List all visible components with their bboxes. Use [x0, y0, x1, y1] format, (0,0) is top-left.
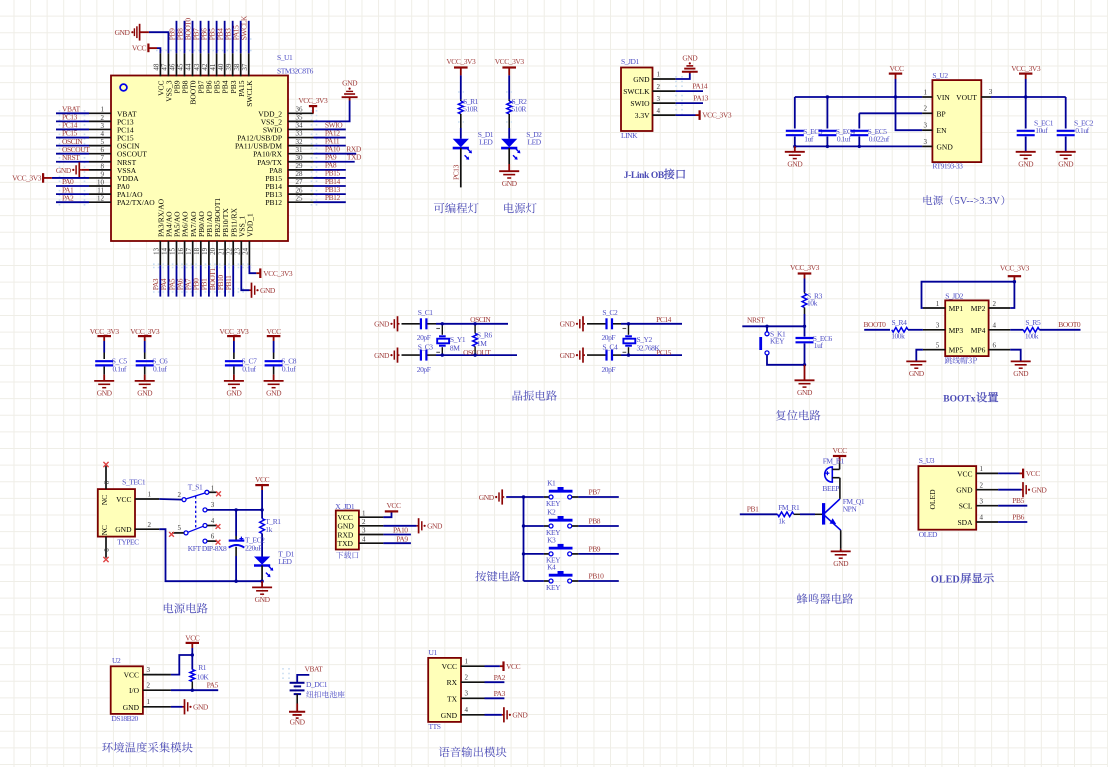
- svg-text:3: 3: [101, 122, 105, 130]
- wire net PB6: [998, 521, 1027, 523]
- svg-text:VCC_3V3: VCC_3V3: [1000, 263, 1030, 272]
- wire VCC to buzzer: [839, 461, 841, 469]
- svg-text:SWCLK: SWCLK: [240, 15, 249, 40]
- wire S_EC2 bottom: [1065, 137, 1067, 152]
- svg-text:VCC_3V3: VCC_3V3: [702, 111, 732, 120]
- wire U2 GND: [171, 706, 183, 708]
- svg-text:3: 3: [924, 138, 928, 146]
- wire X_JD1 pin2 to GND: [383, 525, 416, 527]
- wire net PA8: [314, 169, 346, 171]
- svg-text:44: 44: [185, 63, 193, 71]
- U1 pin 11 (PA1/AO): [89, 193, 111, 195]
- U1 pin 13 (PA3/RX/AO): [159, 241, 161, 265]
- svg-text:BP: BP: [937, 109, 946, 118]
- svg-text:0.022uf: 0.022uf: [869, 135, 890, 144]
- wire net PB4 (top): [224, 21, 226, 53]
- wire U1 pin 24 to VCC_3V3: [249, 265, 256, 273]
- wire net PB9 (top): [175, 21, 177, 53]
- svg-text:MP2: MP2: [971, 304, 986, 313]
- svg-text:EN: EN: [937, 126, 948, 135]
- wire U1 pin 47 to GND: [149, 32, 169, 53]
- power port VCC (TTS): [500, 665, 504, 667]
- wire FM_R1 to base: [794, 513, 800, 515]
- svg-text:26: 26: [296, 186, 304, 194]
- svg-text:PB10: PB10: [589, 571, 605, 580]
- connector S_JD1 body: [621, 68, 653, 132]
- wire OSCIN: [427, 323, 436, 325]
- svg-text:100k: 100k: [1025, 332, 1039, 341]
- key K2: [549, 524, 553, 528]
- svg-text:0.1uf: 0.1uf: [837, 135, 851, 144]
- svg-text:2: 2: [657, 83, 661, 91]
- U1 pin 21 (PB10/TX): [224, 241, 226, 265]
- ground below S_D2: [499, 170, 519, 172]
- U1 pin 10 (PA0): [89, 185, 111, 187]
- resistor S_R5 100k: [1023, 328, 1039, 333]
- svg-text:12: 12: [97, 195, 105, 203]
- capacitor S_EC3 1uf: [786, 130, 804, 132]
- svg-text:PA2/TX/AO: PA2/TX/AO: [117, 198, 155, 207]
- IC S_U2 body: [932, 80, 981, 162]
- svg-text:LINK: LINK: [621, 131, 638, 140]
- wire BP to S_EC5: [859, 112, 922, 114]
- wire net NRST: [56, 161, 89, 163]
- title 按键电路: [475, 571, 520, 582]
- svg-text:KEY: KEY: [546, 499, 561, 508]
- svg-text:STM32C8T6: STM32C8T6: [277, 67, 314, 76]
- svg-text:1: 1: [148, 491, 152, 499]
- wire net PA9 (X_JD1): [383, 542, 411, 544]
- wire K3 to PB9: [578, 553, 618, 555]
- wire key bus: [523, 497, 525, 581]
- U1 pin 15 (PA5/AO): [176, 241, 178, 265]
- wire net NRST (reset): [742, 325, 804, 327]
- wire PC15: [613, 354, 621, 356]
- junction S_EC4/GND rail: [826, 145, 829, 148]
- svg-text:5: 5: [101, 138, 105, 146]
- wire net PA12: [314, 137, 346, 139]
- resistor R1 10K: [190, 670, 195, 682]
- U1 pin 5 (OSCIN): [89, 145, 111, 147]
- U1 pin 23 (VSS_1): [240, 241, 242, 265]
- svg-text:3: 3: [657, 95, 661, 103]
- module U1 body: [428, 658, 461, 722]
- svg-text:4: 4: [211, 517, 215, 525]
- wire TEC1 VCC to switch: [159, 498, 181, 501]
- wire net PA2: [485, 681, 505, 683]
- svg-text:6: 6: [211, 532, 215, 540]
- wire S_EC4 top: [826, 97, 828, 129]
- U1 pin 46 (PB9): [175, 53, 177, 76]
- junction S_R6 top: [473, 322, 476, 325]
- svg-text:220uF: 220uF: [245, 543, 262, 552]
- wire S_R5 to BOOT0: [1039, 329, 1080, 331]
- S_U3 pin 4 (SDA): [976, 521, 998, 523]
- svg-text:U1: U1: [429, 648, 438, 657]
- S_JD1 pin 3 (SWIO): [653, 102, 676, 104]
- svg-text:GND: GND: [137, 389, 153, 398]
- svg-text:GND: GND: [427, 522, 443, 531]
- switch T_S1 contact 2: [182, 498, 186, 502]
- ground left of S_C2: [583, 323, 585, 325]
- svg-text:SDA: SDA: [957, 518, 973, 527]
- svg-text:PB1: PB1: [747, 504, 759, 513]
- svg-text:K2: K2: [547, 508, 556, 517]
- svg-text:VCC: VCC: [833, 446, 848, 455]
- module U2 body: [111, 666, 143, 714]
- svg-text:VCC: VCC: [255, 475, 270, 484]
- wire contact3 to VCC rail: [207, 509, 262, 511]
- svg-text:17: 17: [185, 247, 193, 255]
- wire net PB12: [314, 201, 346, 203]
- capacitor S_C6 0.1uf: [136, 360, 154, 362]
- T_S1 pin5 stub: [172, 532, 184, 534]
- svg-text:1k: 1k: [265, 525, 272, 534]
- wire GND to S_C1: [402, 323, 420, 325]
- svg-text:S_C1: S_C1: [418, 308, 434, 317]
- ground at U1 pin 35: [349, 97, 351, 100]
- S_U3 pin 2 (GND): [976, 489, 998, 491]
- svg-text:5: 5: [936, 342, 940, 350]
- connector X_JD1 body: [336, 511, 359, 550]
- switch T_S1 contact 4: [203, 524, 207, 528]
- svg-text:GND: GND: [193, 703, 209, 712]
- resistor S_R1 510R: [460, 100, 462, 101]
- wire net PB8 (top): [183, 21, 185, 53]
- ground below U1: [250, 289, 252, 291]
- switch T_S1 lever (top): [186, 493, 205, 499]
- wire net PA5 (DS18B20): [171, 689, 218, 691]
- title 晶振电路: [513, 390, 557, 401]
- svg-text:2: 2: [362, 518, 366, 526]
- ground (DS18B20): [183, 706, 185, 708]
- switch link dashed: [195, 496, 197, 530]
- svg-text:SWCLK: SWCLK: [245, 80, 254, 107]
- no-connect mark T_S1 pin5: [169, 532, 174, 537]
- svg-text:MP1: MP1: [949, 304, 964, 313]
- svg-text:510R: 510R: [512, 104, 527, 113]
- wire net PB7 (top): [200, 21, 202, 53]
- svg-text:MP5: MP5: [949, 346, 964, 355]
- svg-text:GND: GND: [682, 53, 698, 62]
- ground above S_JD1 pin1: [689, 72, 691, 74]
- svg-text:1uf: 1uf: [814, 341, 824, 350]
- svg-text:GND: GND: [226, 389, 242, 398]
- U2 pin 3 (VCC): [143, 674, 171, 676]
- junction NRST/R3: [803, 325, 806, 328]
- wire T_EC2 to GND rail: [235, 547, 237, 556]
- ground (OLED): [1021, 489, 1023, 491]
- svg-text:PC14: PC14: [656, 315, 672, 324]
- title 蜂鸣器电路: [797, 593, 853, 604]
- svg-text:GND: GND: [909, 369, 925, 378]
- power port VCC above U1: [148, 47, 157, 49]
- junction S_Y2 bottom: [627, 353, 630, 356]
- T_S1 pin1 stub: [209, 491, 216, 493]
- svg-text:6: 6: [993, 342, 997, 350]
- U1 pin 17 (PA7/AO): [192, 241, 194, 265]
- svg-text:MP6: MP6: [971, 346, 986, 355]
- svg-text:21: 21: [217, 247, 225, 255]
- svg-text:PB11: PB11: [224, 275, 233, 290]
- ground at U1 pin 8 (VSSA): [81, 169, 89, 171]
- svg-text:PA14: PA14: [692, 82, 707, 91]
- switch T_S1 contact 6: [203, 539, 207, 543]
- svg-text:7: 7: [101, 154, 105, 162]
- wire S_R1 to S_D1: [460, 128, 462, 139]
- wire S_EC3 top: [794, 97, 796, 129]
- svg-text:3: 3: [362, 527, 366, 535]
- power port VCC (X_JD1): [391, 510, 393, 513]
- svg-text:31: 31: [296, 146, 304, 154]
- svg-text:VCC: VCC: [506, 662, 521, 671]
- wire MP5 to GND: [916, 350, 923, 362]
- resistor T_R1 1k: [260, 519, 265, 534]
- wire net BOOT0 (top): [192, 21, 194, 53]
- svg-text:VIN: VIN: [937, 93, 951, 102]
- capacitor S_EC6 1uf: [796, 337, 814, 339]
- svg-text:VCC_3V3: VCC_3V3: [263, 269, 293, 278]
- svg-text:1k: 1k: [778, 516, 785, 525]
- svg-text:PC13: PC13: [452, 164, 461, 180]
- svg-text:48: 48: [153, 63, 161, 71]
- X_JD1 pin 2 (GND): [359, 525, 384, 527]
- wire OSCOUT: [427, 354, 436, 356]
- wire T_D1 to GND rail: [261, 565, 263, 581]
- wire PC14: [613, 323, 621, 325]
- svg-text:NRST: NRST: [62, 153, 80, 162]
- U1 pin 33 (PA12/USB/DP): [288, 137, 314, 139]
- T_S1 pin4 stub: [207, 525, 216, 527]
- svg-text:BOOT0: BOOT0: [1058, 320, 1081, 329]
- svg-text:3: 3: [980, 497, 984, 505]
- svg-text:14: 14: [161, 247, 169, 255]
- svg-text:43: 43: [193, 63, 201, 71]
- svg-text:35: 35: [296, 114, 304, 122]
- wire GND to key bus: [506, 496, 544, 498]
- svg-text:PB9: PB9: [589, 544, 601, 553]
- svg-text:PA10: PA10: [393, 526, 408, 535]
- X_JD1 pin 1 (VCC): [359, 516, 384, 518]
- svg-text:GND: GND: [115, 28, 131, 37]
- svg-text:GND: GND: [479, 493, 495, 502]
- svg-text:16: 16: [177, 247, 185, 255]
- svg-text:1: 1: [362, 509, 366, 517]
- wire net PB6 (top): [208, 21, 210, 53]
- svg-text:K3: K3: [547, 535, 556, 544]
- svg-text:GND: GND: [1018, 159, 1034, 168]
- U1 pin 6 (OSCOUT): [89, 153, 111, 155]
- no-connect mark T_S1 pin1: [216, 491, 221, 496]
- wire PB1 to FM_R1: [740, 513, 778, 515]
- svg-text:0.1uf: 0.1uf: [1075, 126, 1089, 135]
- U1 pin 19 (PB1/AO): [208, 241, 210, 265]
- crystal S_Y1 8M: [441, 324, 443, 335]
- wire MP6 to GND: [1010, 350, 1021, 362]
- svg-text:41: 41: [209, 63, 217, 71]
- wire net PA14: [676, 90, 703, 92]
- svg-text:VOUT: VOUT: [956, 93, 977, 102]
- S_JD1 pin 1 (GND): [653, 78, 676, 80]
- svg-text:2: 2: [465, 674, 469, 682]
- junction LED/GND rail: [260, 580, 263, 583]
- svg-text:GND: GND: [956, 486, 973, 495]
- ground below S_C7: [224, 380, 244, 382]
- wire VCC_3V3 to S_R2: [508, 75, 510, 99]
- IC U1 polarity mark: [120, 84, 127, 91]
- svg-text:4: 4: [980, 514, 984, 522]
- svg-text:S_C3: S_C3: [418, 342, 434, 351]
- ground (battery): [289, 711, 305, 713]
- power port VCC (OLED): [1020, 472, 1024, 474]
- LED S_D2: [501, 139, 517, 147]
- svg-text:BOOTx: BOOTx: [943, 394, 975, 404]
- svg-text:1: 1: [101, 106, 105, 114]
- svg-text:TX: TX: [447, 694, 458, 703]
- svg-text:2: 2: [980, 481, 984, 489]
- svg-text:3: 3: [989, 88, 993, 96]
- wire bus to K3: [524, 553, 544, 555]
- U1 pin 47 (VSS_3): [167, 53, 169, 76]
- svg-text:S_C4: S_C4: [602, 342, 618, 351]
- svg-text:KEY: KEY: [546, 583, 561, 592]
- svg-text:RX: RX: [447, 678, 458, 687]
- svg-text:PB6: PB6: [1012, 513, 1024, 522]
- ground below S_C8: [264, 380, 284, 382]
- wire bus to K4: [524, 580, 544, 582]
- wire emitter to GND: [840, 530, 842, 549]
- svg-text:46: 46: [169, 63, 177, 71]
- junction EC6/GND: [803, 363, 806, 366]
- svg-text:VCC: VCC: [124, 671, 139, 680]
- svg-text:VCC: VCC: [442, 662, 457, 671]
- S_U3 pin 3 (SCL): [976, 505, 998, 507]
- value 跳线帽3P: [945, 357, 977, 364]
- svg-text:BOOT0: BOOT0: [864, 320, 887, 329]
- switch T_S1 contact 3: [203, 508, 207, 512]
- wire S_JD1 pin4 to VCC_3V3: [676, 114, 696, 116]
- svg-text:DS18B20: DS18B20: [111, 714, 138, 723]
- ground (TTS): [502, 714, 504, 716]
- svg-text:VBAT: VBAT: [305, 665, 324, 674]
- svg-text:47: 47: [161, 63, 169, 71]
- U1 pin 20 (PB2/BOOT1): [216, 241, 218, 265]
- svg-text:KEY: KEY: [770, 337, 785, 346]
- S_TEC1 pin 2 (GND): [135, 528, 159, 530]
- svg-text:1: 1: [211, 485, 215, 493]
- wire GND to S_C4: [587, 354, 606, 356]
- svg-text:2: 2: [178, 491, 182, 499]
- wire TTS pin4 to GND: [485, 714, 502, 716]
- capacitor S_C1 20pF: [420, 318, 422, 329]
- S_U2 pin 1 (VIN): [922, 96, 932, 98]
- resistor S_R4 100k: [892, 328, 908, 333]
- U1 pin 32 (PA11/USB/DM): [288, 145, 314, 147]
- S_TEC1 pin 1 (VCC): [135, 498, 159, 500]
- ground above U1: [139, 31, 148, 33]
- svg-text:VCC: VCC: [116, 495, 131, 504]
- S_JD2 pin 6 (MP6): [989, 349, 1011, 351]
- wire VCC stem to R1: [191, 648, 193, 670]
- wire net VCC_3V3 to U1 pin 9: [52, 177, 89, 179]
- svg-text:0.1uf: 0.1uf: [242, 365, 256, 374]
- wire S_C8 to GND: [273, 367, 275, 375]
- wire VCC_3V3 stem: [1025, 79, 1027, 129]
- wire TEC1 GND to rail: [159, 529, 262, 581]
- capacitor T_EC2 220uF: [229, 539, 245, 541]
- IC U1 STM32C8T6 body: [111, 76, 288, 242]
- svg-text:39: 39: [225, 63, 233, 71]
- svg-text:S_C2: S_C2: [602, 308, 618, 317]
- crystal S_Y2 32.768K: [628, 324, 630, 335]
- buzzer FM_B1 BEEP: [825, 467, 833, 482]
- U1 pin 12 (PA2/TX/AO): [89, 201, 111, 203]
- title 可编程灯: [434, 203, 479, 214]
- U1 pin 36 (VDD_2): [288, 112, 314, 114]
- svg-text:20pF: 20pF: [417, 333, 431, 342]
- wire U1 pin 48 to VCC: [157, 48, 160, 53]
- svg-text:X_JD1: X_JD1: [335, 502, 355, 511]
- U1 pin 39 (PB3): [232, 53, 234, 76]
- junction R1/PA5: [191, 689, 194, 692]
- capacitor S_C7 0.1uf: [225, 360, 243, 362]
- wire net PB11 (bottom): [232, 265, 234, 296]
- junction T_EC2 top: [234, 508, 237, 511]
- svg-text:10uf: 10uf: [1035, 126, 1048, 135]
- svg-text:100k: 100k: [891, 332, 905, 341]
- wire U2 VCC up to R1: [171, 655, 192, 675]
- capacitor S_C5 0.1uf: [95, 360, 113, 362]
- wire S_EC4 bottom: [826, 137, 828, 147]
- ground below S_C5: [94, 380, 114, 382]
- S_JD2 pin 2 (MP2): [989, 307, 1011, 309]
- wire net PB0 (bottom): [200, 265, 202, 296]
- wire contact3 rail to T_EC2: [235, 510, 237, 536]
- ground (buzzer): [831, 550, 851, 552]
- capacitor S_C2 20pF: [605, 318, 607, 329]
- wire net PC14: [56, 128, 89, 130]
- svg-text:GND: GND: [290, 717, 306, 726]
- key S_K1: [765, 332, 769, 336]
- wire GND stem (reset): [804, 365, 806, 381]
- U2 pin 1 (GND): [143, 706, 171, 708]
- wire X_JD1 pin1 to VCC: [383, 512, 391, 517]
- U1 TTS pin 1 (VCC): [461, 665, 485, 667]
- svg-text:34: 34: [296, 122, 304, 130]
- wire net PA7 (bottom): [192, 265, 194, 296]
- svg-text:22: 22: [225, 247, 233, 255]
- svg-text:SWIO: SWIO: [630, 99, 650, 108]
- svg-text:45: 45: [177, 63, 185, 71]
- ground (power circuit): [252, 586, 272, 588]
- svg-text:1: 1: [147, 698, 151, 706]
- switch T_S1 contact 5: [184, 531, 188, 535]
- wire net PC13: [56, 120, 89, 122]
- S_JD1 pin 2 (SWCLK): [653, 90, 676, 92]
- S_TEC1 top NC pin: [105, 464, 107, 490]
- svg-text:GND: GND: [123, 703, 140, 712]
- svg-text:NPN: NPN: [843, 504, 858, 513]
- svg-text:GND: GND: [338, 522, 355, 531]
- X_JD1 pin 3 (RXD): [359, 534, 384, 536]
- svg-text:RXD: RXD: [338, 530, 354, 539]
- ground below MP5: [906, 360, 926, 362]
- svg-text:1: 1: [657, 71, 661, 79]
- svg-text:0: 0: [103, 548, 111, 552]
- svg-text:VCC: VCC: [386, 501, 401, 510]
- svg-text:GND: GND: [1058, 159, 1074, 168]
- svg-text:OLED: OLED: [931, 574, 960, 585]
